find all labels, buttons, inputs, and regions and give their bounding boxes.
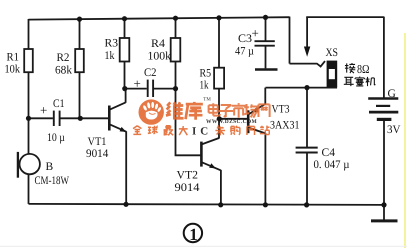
svg-text:R3: R3	[105, 38, 119, 50]
wire microphone to bottom rail	[28, 174, 30, 204]
svg-text:10k: 10k	[5, 64, 21, 76]
plug insertion arrow	[306, 17, 308, 48]
node bottom VT3	[263, 202, 268, 207]
capacitor C3	[255, 40, 275, 42]
wire R4 top	[175, 18, 177, 38]
wire VT1 collector node to C2	[125, 88, 147, 90]
emitter arrows	[120, 47, 311, 169]
wire battery bottom	[383, 121, 385, 205]
node top rail C3	[263, 15, 268, 20]
wire node to microphone	[28, 118, 30, 154]
node bottom VT1	[123, 202, 128, 207]
svg-text:VT1: VT1	[88, 136, 107, 148]
right edge scan stripe	[404, 33, 406, 248]
resistor R1	[24, 49, 33, 72]
svg-text:G: G	[388, 88, 396, 100]
capacitor C4	[296, 147, 318, 149]
svg-text:+: +	[252, 26, 259, 41]
node top rail R4	[173, 16, 178, 21]
svg-text:C2: C2	[144, 67, 157, 79]
svg-text:IC: IC	[192, 126, 212, 138]
label 耳塞机 (earphone note line 2)	[344, 77, 376, 87]
wire R1 bottom to node	[28, 72, 30, 118]
wire left rail upper	[28, 19, 30, 49]
svg-text:C4: C4	[322, 147, 336, 159]
node bottom VT2	[218, 202, 223, 207]
resistor R2	[75, 49, 84, 72]
wire battery down	[383, 17, 385, 99]
node jack C4	[304, 85, 309, 90]
svg-text:0. 047 µ: 0. 047 µ	[314, 159, 350, 171]
jack switch contact XS	[290, 61, 326, 66]
wire R4 node down to VT2 base	[176, 89, 201, 156]
transistor VT1	[108, 106, 111, 131]
node R4 C2	[173, 86, 178, 91]
wire R4 bottom	[175, 62, 177, 89]
node VT1 base left	[26, 116, 31, 121]
transistor VT2	[200, 142, 203, 167]
svg-text:VT3: VT3	[272, 104, 290, 116]
svg-text:10 µ: 10 µ	[47, 132, 65, 144]
resistor R5	[214, 68, 224, 89]
svg-text:XS: XS	[326, 47, 339, 59]
VT1 emitter arrow	[120, 127, 127, 132]
svg-text:1: 1	[189, 225, 198, 244]
wire top rail corner down to jack contact	[289, 17, 291, 64]
node VT3 base	[217, 116, 222, 121]
watermark slogan 全球最大IC采购网站	[133, 126, 269, 136]
resistor R4	[171, 38, 181, 62]
node VT1 base R2	[78, 116, 83, 121]
svg-text:1k: 1k	[105, 50, 115, 62]
wire R5 top	[218, 18, 220, 68]
svg-text:R2: R2	[57, 52, 70, 64]
plug arrow	[304, 47, 310, 57]
svg-text:3V: 3V	[387, 124, 401, 136]
label 接8Ω (earphone note line 1)	[345, 63, 355, 73]
battery G cell plates	[368, 97, 398, 99]
svg-text:68k: 68k	[55, 65, 72, 77]
svg-text:+: +	[40, 103, 47, 118]
VT3 emitter arrow (PNP, points to base)	[252, 108, 259, 113]
VT2 emitter arrow	[209, 163, 216, 168]
node bottom C4	[304, 202, 309, 207]
svg-text:R4: R4	[151, 38, 165, 50]
watermark 电子市场网	[209, 103, 270, 118]
svg-text:B: B	[46, 161, 54, 173]
svg-text:8Ω: 8Ω	[357, 62, 370, 76]
wire R2 top	[79, 19, 81, 49]
watermark logo	[139, 99, 164, 124]
wire battery top	[306, 16, 384, 18]
svg-text:9014: 9014	[175, 182, 200, 194]
wire R5 bottom to VT2 collector	[218, 89, 220, 138]
wire C4 top	[306, 88, 308, 148]
wire bottom rail	[29, 204, 385, 205]
svg-text:1k: 1k	[200, 80, 209, 92]
svg-text:R1: R1	[7, 52, 20, 64]
svg-text:+: +	[134, 76, 141, 91]
svg-text:C3: C3	[238, 33, 252, 45]
watermark 维库	[166, 102, 203, 120]
wire R3 bottom	[124, 62, 126, 89]
svg-text:R5: R5	[200, 68, 212, 80]
wire R2 bottom	[79, 72, 81, 118]
svg-text:CM-18W: CM-18W	[35, 175, 70, 187]
node top rail R2	[77, 17, 82, 22]
XS jack plug body	[327, 61, 338, 88]
wire C1 to VT1 base	[60, 117, 109, 119]
svg-text:47 µ: 47 µ	[235, 46, 254, 58]
ground	[383, 205, 385, 220]
node top rail R5	[216, 15, 221, 20]
svg-text:100k: 100k	[148, 51, 172, 63]
svg-text:9014: 9014	[86, 148, 109, 160]
node VT1 collector	[122, 86, 127, 91]
figure number ①	[184, 224, 202, 242]
wire VT3 base	[219, 118, 247, 120]
svg-text:VT2: VT2	[177, 170, 199, 182]
wire VT3 emitter to jack	[266, 87, 338, 89]
wire base node VT1 left segment	[29, 117, 53, 119]
capacitor C2	[147, 80, 149, 97]
wire top rail	[29, 17, 290, 19]
watermark	[133, 97, 270, 138]
bottom edge scan line	[0, 246, 407, 247]
resistor R3	[120, 38, 130, 62]
capacitor C1	[53, 111, 55, 126]
svg-text:WWW.DZSC.COM: WWW.DZSC.COM	[206, 119, 258, 125]
wire R3 top	[124, 19, 126, 38]
node top rail R3	[122, 16, 127, 21]
wire C2 to R4 node	[154, 88, 176, 90]
wire C3 top	[265, 17, 267, 41]
transistor VT3	[247, 110, 250, 133]
svg-text:C1: C1	[53, 98, 65, 110]
svg-text:TM: TM	[203, 97, 211, 103]
microphone B	[20, 154, 40, 174]
node bottom battery	[381, 202, 386, 207]
svg-text:3AX31: 3AX31	[270, 120, 300, 132]
